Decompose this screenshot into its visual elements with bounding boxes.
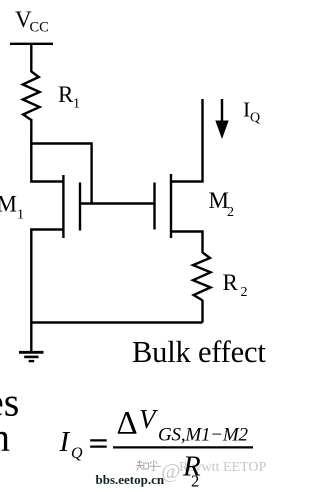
svg-text:2: 2 [241,285,248,300]
svg-text:2: 2 [191,472,199,491]
svg-text:n: n [0,415,10,460]
svg-text:R: R [58,82,74,107]
svg-text:M: M [0,191,17,216]
svg-text:1: 1 [73,97,80,112]
svg-text:2: 2 [227,205,234,220]
svg-text:I: I [59,426,71,458]
svg-text:M: M [209,188,229,213]
svg-text:Bulk effect: Bulk effect [132,335,266,369]
svg-text:R: R [223,270,239,295]
svg-text:CC: CC [30,20,49,36]
svg-text:GS,M1−M2: GS,M1−M2 [158,425,249,446]
svg-text:1: 1 [17,208,24,223]
svg-text:Q: Q [71,445,83,462]
svg-text:V: V [139,404,159,434]
svg-text:bbs.eetop.cn: bbs.eetop.cn [96,472,165,487]
svg-text:Δ: Δ [117,406,138,442]
svg-text:Q: Q [250,111,260,126]
